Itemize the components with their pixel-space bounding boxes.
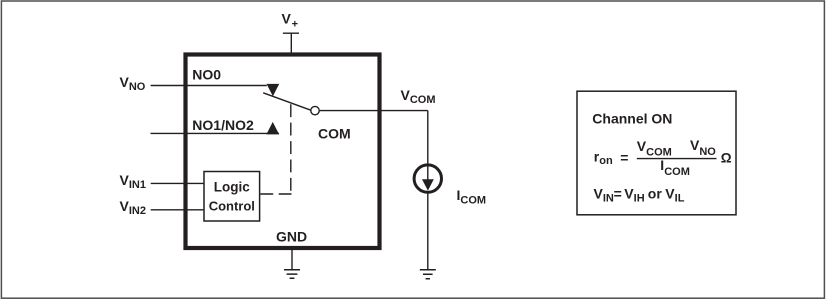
svg-text:COM: COM — [318, 125, 351, 141]
power terminal bar — [283, 32, 299, 34]
wire COM to Vcom node — [319, 110, 428, 112]
svg-text:Control: Control — [209, 199, 255, 214]
dashed control line switch to logic — [260, 104, 291, 194]
current source I_COM — [414, 165, 441, 192]
fraction bar — [637, 158, 717, 160]
wire Vcom down to current source — [427, 111, 429, 166]
svg-text:Logic: Logic — [214, 179, 250, 194]
switch lever — [263, 93, 311, 110]
svg-text:GND: GND — [276, 228, 307, 244]
svg-text:=: = — [614, 185, 622, 201]
svg-text:or: or — [648, 185, 663, 201]
switch contact NO1/NO2 (triangle) — [266, 122, 279, 134]
wire V+ to box — [290, 33, 292, 52]
ground (IC) — [284, 270, 300, 279]
wire V_NO to switch — [151, 85, 267, 87]
annotation box: Channel ON — [577, 91, 736, 215]
wire Vin1 to logic — [151, 182, 204, 184]
svg-text:NO1/NO2: NO1/NO2 — [192, 117, 254, 133]
wire NO1/NO2 — [151, 132, 280, 134]
wire source to ground — [427, 192, 429, 269]
svg-text:=: = — [620, 150, 628, 166]
wire Vin2 to logic — [151, 209, 204, 211]
arrow of current source — [422, 179, 434, 190]
switch pole contact (circle) — [311, 106, 319, 114]
logic control block — [204, 172, 260, 222]
svg-text:Channel ON: Channel ON — [592, 111, 672, 127]
svg-text:NO0: NO0 — [192, 67, 221, 83]
IC body box — [186, 55, 380, 249]
wire GND pin — [291, 250, 293, 270]
ground (current source) — [420, 270, 436, 279]
switch contact NO0 (triangle) — [267, 84, 280, 96]
svg-text:Ω: Ω — [721, 151, 732, 166]
wire inside source — [427, 166, 429, 181]
